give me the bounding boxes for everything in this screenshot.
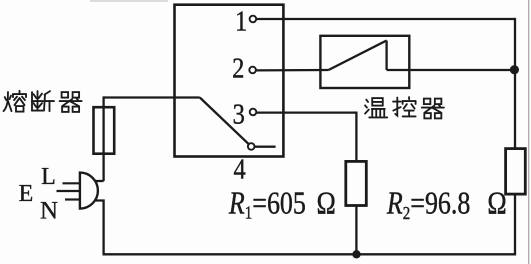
resistor R1 body (346, 161, 367, 205)
svg-text:2: 2 (232, 52, 244, 84)
junction node (thermostat wire meets right rail) (510, 65, 519, 74)
fuse FU body (94, 107, 115, 154)
wire: thermostat output to right rail (387, 69, 515, 71)
wire: right rail down (terminal1 corner to bottom rail, passes behind R2) (514, 18, 516, 254)
wire: terminal 3 to resistor R1 and down to bottom rail (256, 113, 356, 255)
label 熔 (4, 91, 27, 112)
wire: fuse to switch common (horizontal) (104, 96, 200, 98)
svg-text:1: 1 (235, 4, 247, 36)
wire: bottom rail (103, 253, 517, 255)
wire: plug top stub to fuse wire (95, 180, 104, 182)
label 器 (of 温控器) (422, 99, 444, 119)
label 断 (32, 91, 54, 111)
svg-text:L: L (41, 164, 56, 190)
scan border line (right edge) (528, 0, 530, 264)
switch arm (diagonal from common pole) (200, 98, 249, 145)
label 器 (of 熔断器) (60, 92, 82, 112)
svg-text:E: E (19, 181, 34, 207)
label 控 (393, 97, 416, 116)
terminal 3 circle (250, 109, 257, 116)
thermostat bimetal diagonal (329, 41, 387, 71)
thermostat box (320, 36, 409, 88)
plug prong E (middle) (57, 190, 80, 192)
wire: terminal 1 to right rail (top) (256, 18, 515, 20)
terminal 2 circle (249, 67, 256, 74)
resistor R2 body (506, 149, 526, 195)
junction node (R1 wire meets bottom rail) (352, 250, 360, 258)
plug prong N (bottom) (65, 198, 80, 200)
scan mark (top edge faint line) (90, 0, 168, 2)
svg-text:3: 3 (233, 98, 245, 130)
wire: plug bottom stub down to bottom rail (95, 201, 104, 255)
switch arm contact circle (248, 143, 255, 150)
wire: vertical through fuse down to plug (102, 96, 104, 181)
terminal 1 circle (250, 16, 257, 23)
svg-text:R2=96.8Ω: R2=96.8Ω (386, 187, 507, 224)
svg-text:R1=605Ω: R1=605Ω (228, 186, 336, 223)
plug body (power cord E) (80, 173, 98, 209)
thermostat contact post (vertical) (385, 41, 387, 71)
switch position-4 contact bar (255, 146, 276, 148)
plug prong L (top) (63, 182, 80, 184)
wire: terminal 2 to thermostat (256, 69, 329, 72)
selector switch box (175, 5, 284, 157)
svg-text:N: N (40, 197, 58, 224)
svg-text:4: 4 (233, 153, 245, 185)
label 温 (365, 98, 387, 117)
